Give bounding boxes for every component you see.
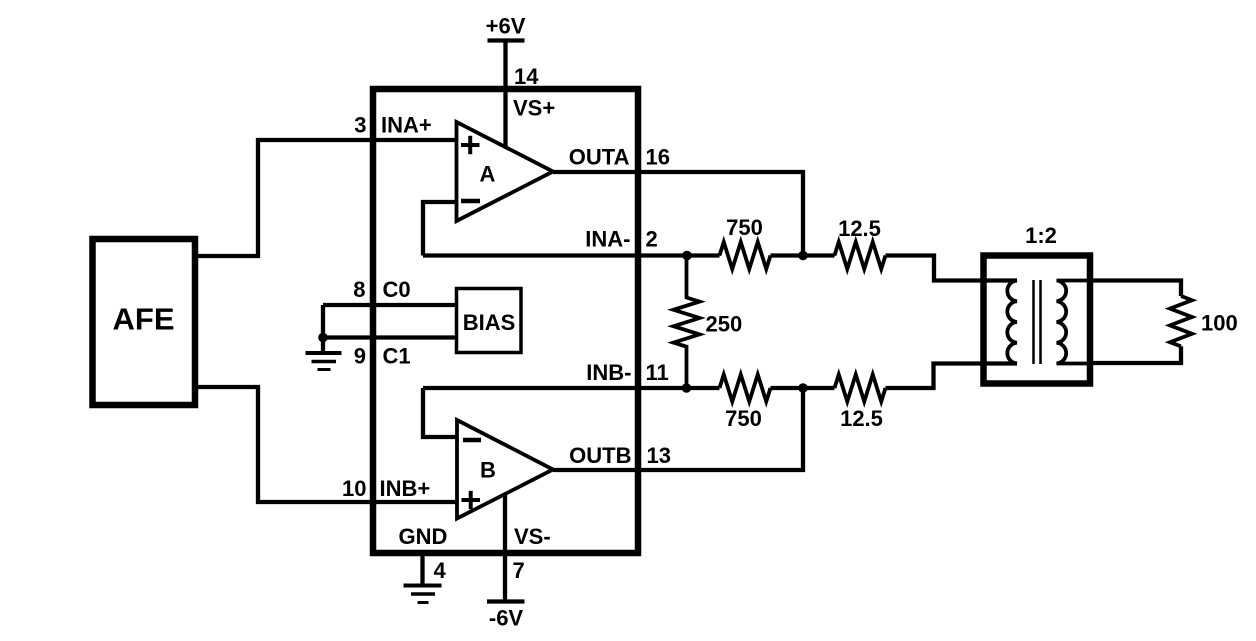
- IC U1 box: [373, 89, 638, 553]
- wire C0 to ground: [321, 305, 325, 352]
- svg-text:BIAS: BIAS: [463, 310, 516, 335]
- svg-text:GND: GND: [399, 524, 448, 549]
- node junction INA- R3: [682, 251, 692, 261]
- wire OUTA net: [553, 172, 803, 256]
- transformer core: [1034, 280, 1041, 364]
- wire R5 to transformer primary bottom: [886, 364, 1018, 389]
- op-amp A plus input symbol: [461, 136, 480, 154]
- wire between R1 and R2: [771, 253, 835, 257]
- wire between R4 and R5: [771, 386, 835, 390]
- svg-text:8: 8: [353, 277, 365, 302]
- wire R6 to secondary bottom: [1090, 346, 1181, 363]
- transformer secondary winding: [1057, 281, 1091, 364]
- svg-text:OUTA: OUTA: [569, 145, 630, 170]
- wire C1 net: [323, 335, 456, 339]
- svg-text:A: A: [480, 162, 496, 187]
- resistor R6 100: [1170, 296, 1192, 346]
- svg-text:OUTB: OUTB: [569, 443, 631, 468]
- svg-text:VS-: VS-: [514, 524, 551, 549]
- node junction INB- R3: [682, 383, 692, 393]
- svg-text:14: 14: [514, 64, 539, 89]
- wire secondary top to R6: [1090, 281, 1181, 297]
- svg-text:750: 750: [726, 215, 763, 240]
- node junction OUTA R1 R2: [798, 251, 808, 261]
- svg-text:+6V: +6V: [486, 14, 526, 39]
- wire VS- supply from op-amp B: [503, 494, 507, 601]
- wire INA- net: [423, 253, 720, 257]
- svg-text:750: 750: [725, 406, 762, 431]
- op-amp A: [457, 122, 554, 221]
- svg-text:C1: C1: [383, 344, 411, 369]
- svg-text:10: 10: [342, 476, 366, 501]
- svg-text:INA+: INA+: [381, 113, 432, 138]
- resistor R1 750: [720, 242, 771, 269]
- svg-text:-6V: -6V: [489, 606, 524, 631]
- wire INB- net: [423, 386, 720, 390]
- svg-text:12.5: 12.5: [838, 216, 881, 241]
- svg-text:250: 250: [706, 312, 743, 337]
- svg-text:AFE: AFE: [113, 302, 175, 337]
- op-amp A minus input symbol: [461, 199, 480, 204]
- svg-text:1:2: 1:2: [1025, 223, 1057, 248]
- svg-text:3: 3: [354, 113, 366, 138]
- supply +6V bar: [488, 38, 525, 42]
- svg-text:11: 11: [646, 360, 669, 385]
- resistor R2 12.5: [835, 242, 886, 269]
- ground symbol at C1: [306, 353, 342, 370]
- svg-text:INB+: INB+: [380, 476, 431, 501]
- wire AFE to pin 10 INB+: [195, 387, 457, 502]
- svg-text:INB-: INB-: [586, 360, 631, 385]
- block AFE: [93, 239, 196, 405]
- wire C0 net: [323, 303, 456, 307]
- wire GND pin to ground: [420, 552, 424, 585]
- wire op-amp A feedback: [423, 202, 457, 256]
- wire VS+ supply to op-amp A: [503, 41, 507, 148]
- svg-text:12.5: 12.5: [840, 406, 883, 431]
- op-amp B: [457, 420, 553, 519]
- svg-text:16: 16: [646, 145, 670, 170]
- supply -6V bar: [487, 599, 525, 603]
- svg-text:C0: C0: [383, 277, 411, 302]
- op-amp B minus input symbol: [463, 438, 481, 443]
- svg-text:4: 4: [434, 558, 447, 583]
- svg-text:VS+: VS+: [513, 96, 555, 121]
- wire OUTB net: [553, 388, 803, 470]
- wire op-amp B feedback: [423, 388, 457, 437]
- node junction OUTB R4 R5: [798, 383, 808, 393]
- ground symbol at pin 4: [404, 586, 442, 603]
- svg-text:INA-: INA-: [585, 227, 630, 252]
- svg-text:2: 2: [646, 227, 658, 252]
- wire R2 to transformer primary top: [886, 256, 1018, 281]
- svg-text:13: 13: [647, 443, 671, 468]
- node junction C1 ground: [318, 333, 328, 343]
- svg-text:7: 7: [513, 558, 525, 583]
- block BIAS: [457, 289, 522, 353]
- wire AFE to pin 3 INA+: [195, 140, 457, 256]
- op-amp B plus input symbol: [462, 491, 481, 509]
- transformer T1 box: [984, 256, 1091, 384]
- resistor R4 750: [720, 375, 771, 402]
- svg-text:B: B: [480, 458, 496, 483]
- svg-text:9: 9: [354, 344, 366, 369]
- resistor R5 12.5: [835, 375, 886, 402]
- svg-text:100: 100: [1201, 311, 1238, 336]
- transformer primary winding: [984, 281, 1018, 364]
- resistor R3 250: [674, 256, 700, 389]
